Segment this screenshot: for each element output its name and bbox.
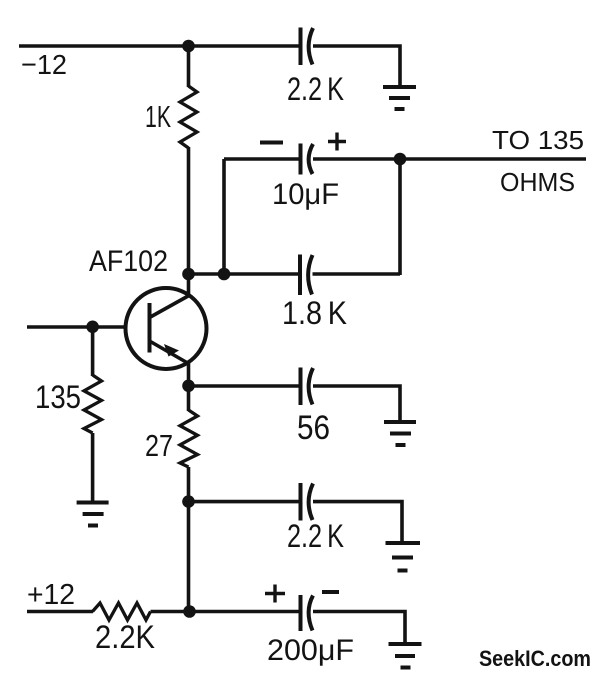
wire: -12 supply rail left segment bbox=[19, 44, 300, 48]
wire: +12 feed left segment bbox=[27, 610, 93, 614]
wire: output to TO 135 OHMS bbox=[400, 157, 586, 161]
ground symbol G1 bbox=[383, 87, 416, 109]
wire: output loop right vertical bbox=[398, 159, 402, 275]
svg-text:SeekIC.com: SeekIC.com bbox=[479, 646, 591, 671]
svg-text:56: 56 bbox=[297, 409, 330, 447]
wire: C5 to ground corner bbox=[313, 502, 402, 542]
wire: 2.2K branch left segment bbox=[189, 500, 301, 504]
wire: output loop top (10uF branch) bbox=[224, 157, 300, 161]
polarity plus for C6 bbox=[265, 585, 285, 603]
polarity minus for C6 bbox=[322, 590, 339, 594]
svg-text:2.2 K: 2.2 K bbox=[287, 71, 344, 107]
ground symbol G5 bbox=[389, 644, 422, 668]
svg-text:2.2 K: 2.2 K bbox=[287, 518, 344, 554]
capacitor C4 56 (plates) bbox=[301, 368, 314, 406]
wire: output loop left vertical bbox=[222, 159, 226, 275]
capacitor C1 2.2K bypass (plates) bbox=[301, 28, 314, 66]
svg-text:AF102: AF102 bbox=[89, 245, 168, 278]
node: junction 27 / 2.2K branch bbox=[182, 495, 195, 508]
resistor R1 1K (zigzag) bbox=[180, 86, 197, 148]
ground symbol G2 bbox=[77, 503, 109, 526]
node: junction of -12 rail and 1K resistor bbox=[182, 40, 195, 53]
transistor Q1 AF102 body circle bbox=[126, 288, 207, 369]
wire: C6 to ground corner bbox=[313, 612, 405, 644]
wire: main vertical from -12 rail to 1K resistor bbox=[187, 46, 191, 87]
wire: 2.2K node down to +12 rail bbox=[187, 502, 191, 612]
wire: C2 right plate to output node bbox=[313, 157, 400, 161]
node: junction +12 rail / emitter chain bbox=[183, 605, 196, 618]
wire: 135 resistor to ground bbox=[91, 433, 95, 502]
node: emitter junction (56 branch) bbox=[182, 380, 195, 393]
wire: base input bbox=[27, 325, 127, 329]
wire: R4 to C6 bbox=[151, 610, 301, 614]
node: junction loop-left / 1.8K branch bbox=[218, 268, 231, 281]
wire: 56 branch left segment bbox=[189, 384, 301, 388]
wire: C1 to ground corner bbox=[313, 46, 400, 86]
capacitor C3 1.8K (plates) bbox=[300, 255, 313, 296]
resistor R2 135 (zigzag) bbox=[84, 375, 102, 433]
svg-text:OHMS: OHMS bbox=[500, 167, 575, 197]
svg-text:200μF: 200μF bbox=[267, 634, 354, 667]
transistor Q1 base bar bbox=[148, 303, 152, 353]
svg-text:27: 27 bbox=[145, 428, 173, 463]
capacitor C6 200uF electrolytic (plates) bbox=[301, 595, 314, 631]
wire: C3 to loop right vertical bbox=[313, 272, 401, 276]
capacitor C2 10uF electrolytic (plates) bbox=[301, 144, 314, 175]
wire: C4 to ground corner bbox=[313, 386, 400, 421]
node: junction collector / 1.8K branch bbox=[182, 268, 195, 281]
transistor Q1 collector lead bbox=[150, 296, 190, 318]
wire: 27 resistor down to 2.2K branch node bbox=[187, 467, 191, 502]
ground symbol G4 bbox=[386, 543, 421, 571]
node: output junction bbox=[394, 153, 407, 166]
polarity plus for C2 bbox=[328, 133, 346, 151]
svg-text:135: 135 bbox=[35, 379, 81, 415]
polarity minus for C2 bbox=[260, 141, 283, 145]
svg-text:TO 135: TO 135 bbox=[492, 125, 584, 155]
resistor R3 27 (zigzag) bbox=[180, 410, 198, 467]
capacitor C5 2.2K (plates) bbox=[301, 483, 314, 521]
svg-text:−12: −12 bbox=[21, 49, 67, 80]
wire: emitter stub down to emitter node bbox=[187, 362, 191, 386]
transistor Q1 emitter arrow (PNP) bbox=[164, 344, 179, 357]
svg-text:+12: +12 bbox=[27, 579, 75, 611]
node: junction base / 135 resistor bbox=[86, 321, 99, 334]
svg-text:2.2K: 2.2K bbox=[95, 619, 155, 655]
wire: collector stub to 1.8K node bbox=[187, 274, 191, 297]
wire: 1K resistor down to collector node bbox=[187, 147, 191, 275]
svg-text:1.8 K: 1.8 K bbox=[282, 295, 347, 331]
svg-text:10μF: 10μF bbox=[272, 178, 339, 211]
wire: base node down to 135 resistor bbox=[91, 327, 95, 376]
transistor Q1 emitter lead bbox=[150, 341, 189, 364]
resistor R4 2.2K (horizontal zigzag) bbox=[93, 603, 151, 620]
ground symbol G3 bbox=[384, 422, 416, 445]
wire: 1.8K branch left segment bbox=[189, 272, 301, 276]
svg-text:1K: 1K bbox=[145, 99, 171, 134]
wire: emitter node down to 27 resistor bbox=[187, 386, 191, 411]
